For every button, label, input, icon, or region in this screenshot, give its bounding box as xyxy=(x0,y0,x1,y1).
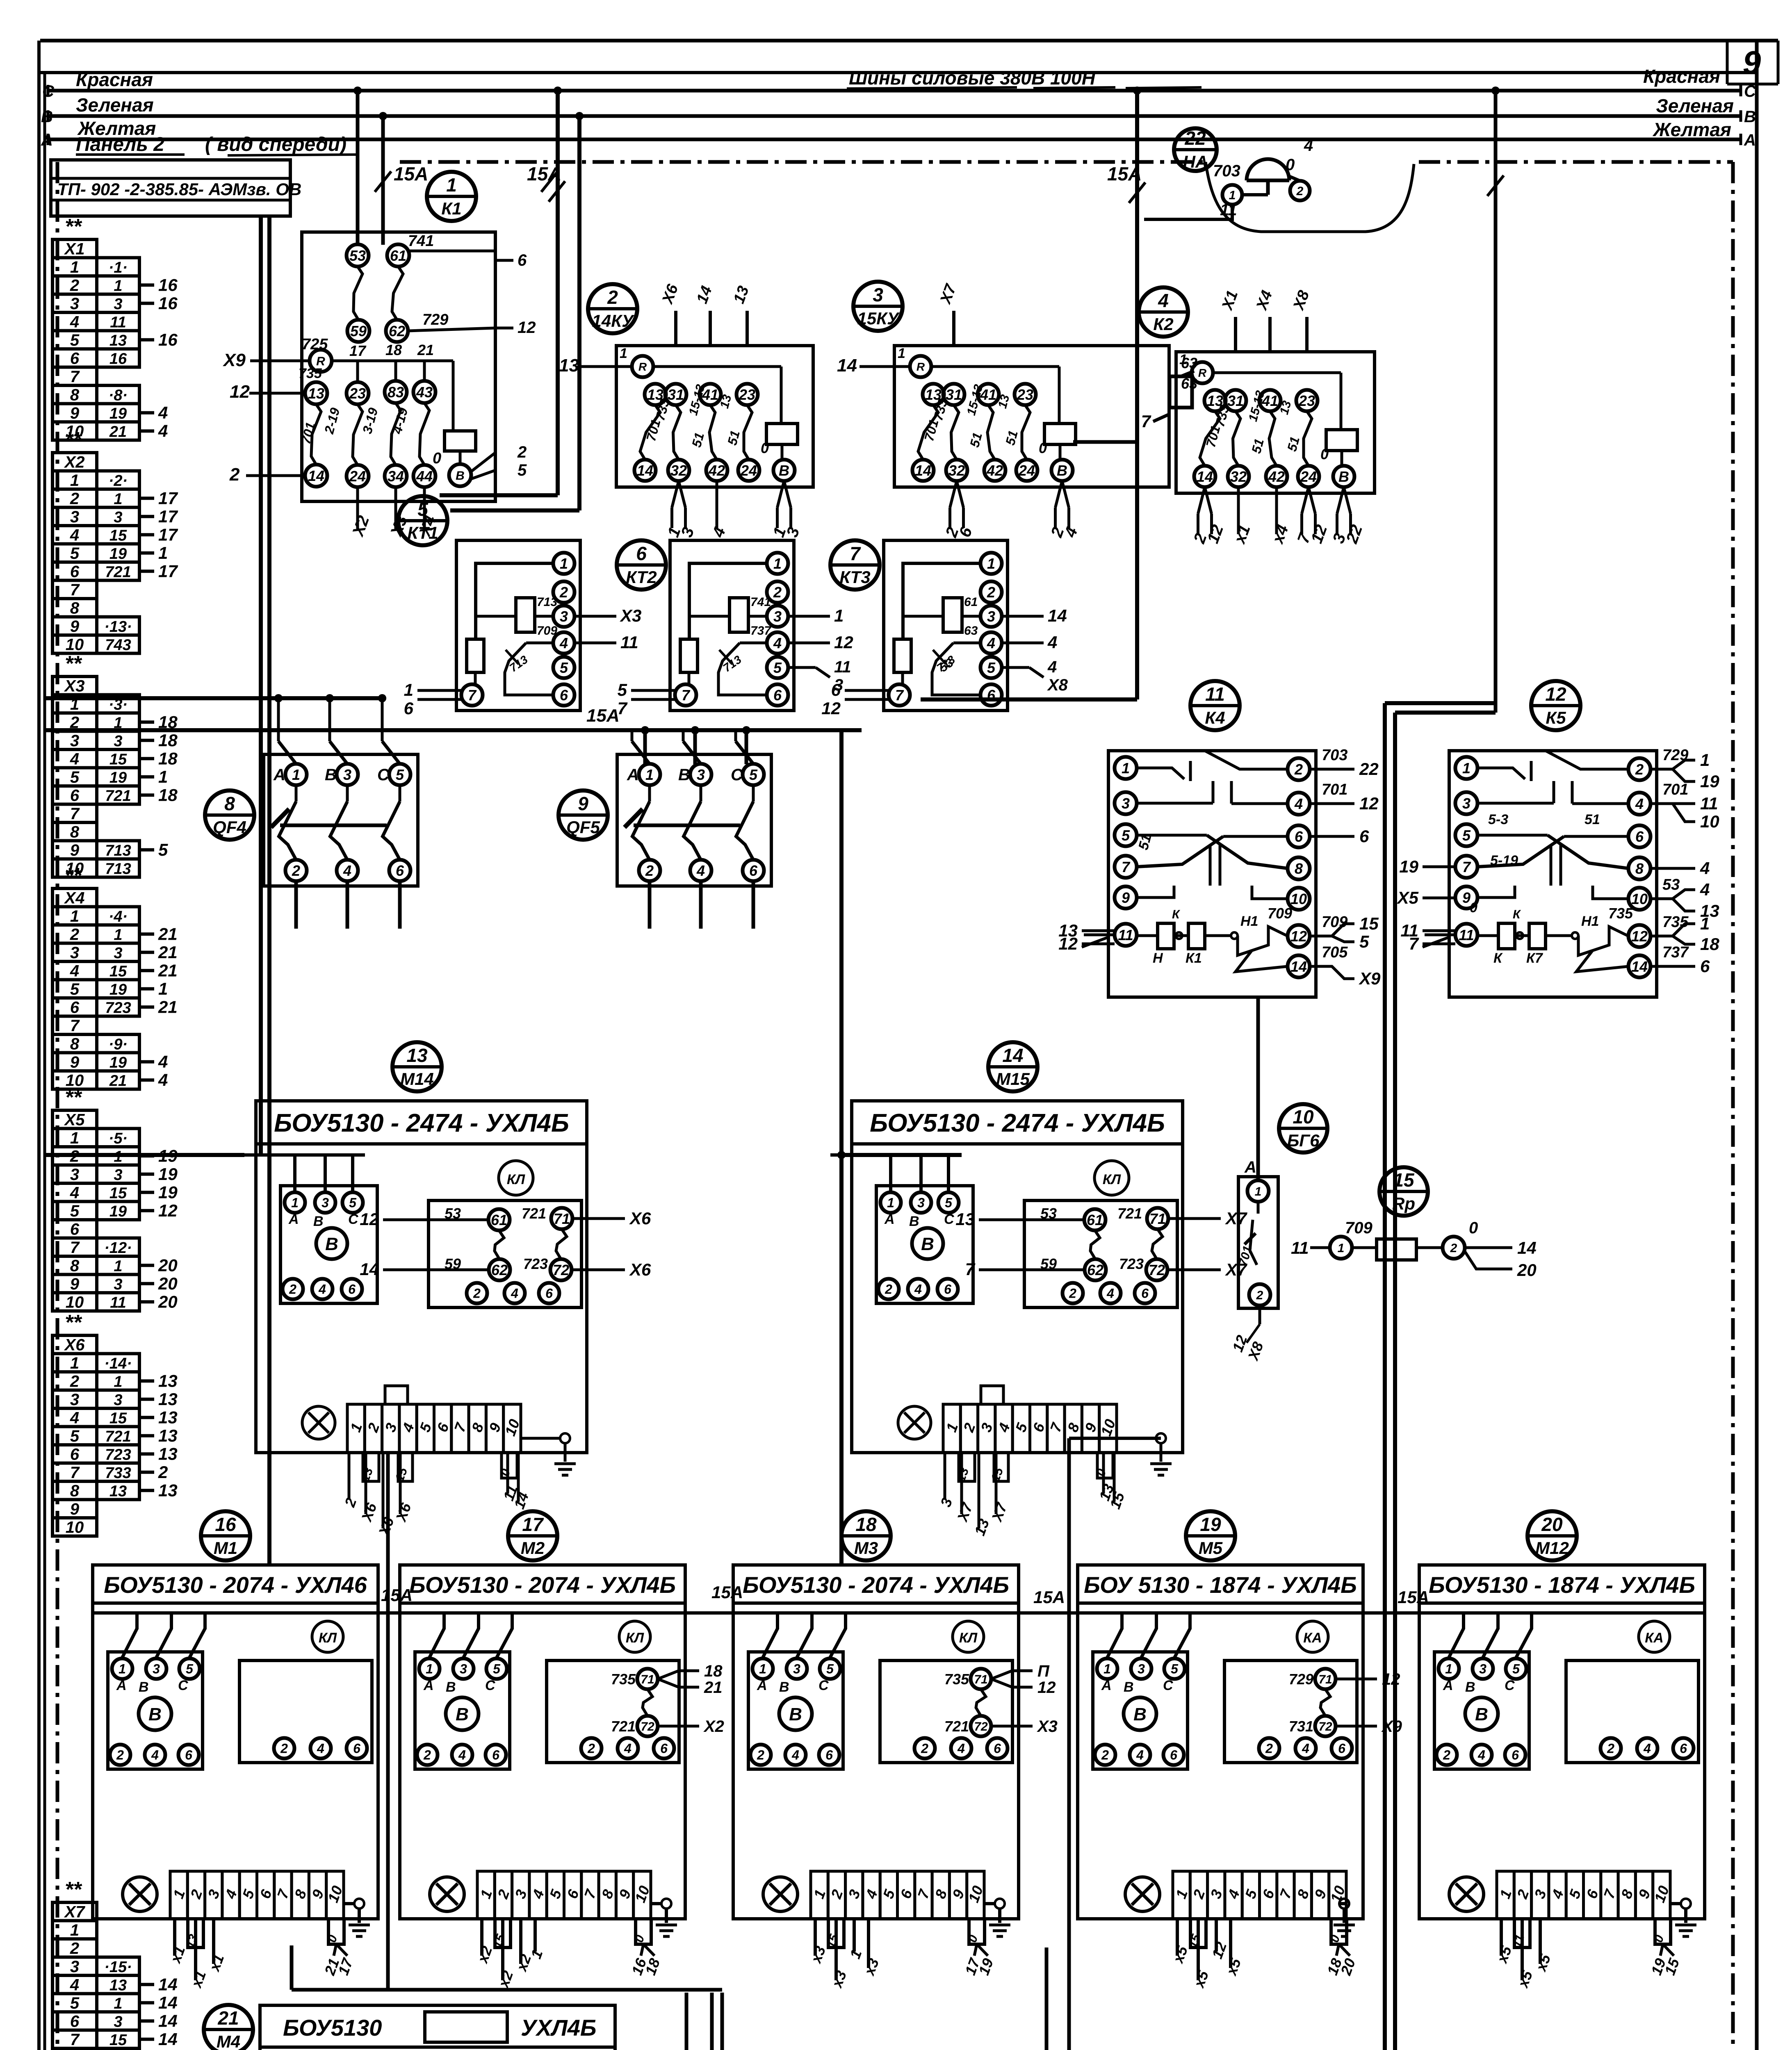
svg-text:11: 11 xyxy=(1205,683,1225,705)
svg-text:721: 721 xyxy=(522,1205,546,1222)
svg-text:11: 11 xyxy=(110,1294,126,1311)
svg-text:1: 1 xyxy=(114,490,122,508)
svg-text:4: 4 xyxy=(1047,658,1057,676)
svg-text:12: 12 xyxy=(834,633,853,652)
svg-text:4: 4 xyxy=(1136,1748,1144,1763)
svg-text:61: 61 xyxy=(1087,1212,1103,1228)
svg-text:709: 709 xyxy=(1322,913,1347,931)
svg-text:21: 21 xyxy=(158,961,178,980)
svg-text:4: 4 xyxy=(773,635,782,651)
svg-text:2: 2 xyxy=(70,925,79,943)
svg-text:12: 12 xyxy=(1058,934,1078,953)
svg-text:5: 5 xyxy=(618,680,627,699)
svg-text:9: 9 xyxy=(70,1500,80,1518)
svg-text:721: 721 xyxy=(105,787,131,804)
svg-text:3: 3 xyxy=(114,733,122,750)
svg-text:1: 1 xyxy=(1229,189,1236,202)
svg-text:A: A xyxy=(41,131,53,149)
svg-text:4: 4 xyxy=(1700,880,1710,899)
svg-text:КТ3: КТ3 xyxy=(839,567,870,587)
svg-text:C: C xyxy=(42,82,55,100)
svg-text:9: 9 xyxy=(1462,889,1471,906)
svg-text:4: 4 xyxy=(559,635,568,651)
svg-text:М3: М3 xyxy=(854,1538,878,1558)
svg-text:24: 24 xyxy=(349,468,366,485)
svg-text:4: 4 xyxy=(957,1741,965,1756)
svg-text:16: 16 xyxy=(109,350,127,367)
svg-text:1: 1 xyxy=(834,606,844,625)
svg-text:6: 6 xyxy=(660,1741,668,1756)
svg-text:13: 13 xyxy=(955,1209,975,1229)
svg-text:С: С xyxy=(178,1678,188,1693)
svg-text:X4: X4 xyxy=(64,889,85,907)
svg-text:3: 3 xyxy=(114,1276,122,1293)
svg-text:7: 7 xyxy=(1122,859,1131,875)
svg-text:709: 709 xyxy=(1345,1219,1372,1237)
svg-text:1: 1 xyxy=(773,555,782,572)
svg-text:КТ1: КТ1 xyxy=(407,523,438,542)
svg-text:2: 2 xyxy=(921,1741,928,1756)
svg-text:735: 735 xyxy=(611,1671,636,1688)
svg-text:3: 3 xyxy=(70,295,79,313)
svg-text:6: 6 xyxy=(70,1220,80,1238)
svg-text:C: C xyxy=(1744,82,1756,100)
svg-text:21: 21 xyxy=(158,943,178,962)
svg-text:4: 4 xyxy=(1304,137,1313,155)
svg-text:2: 2 xyxy=(280,1741,288,1756)
svg-text:В: В xyxy=(139,1679,149,1695)
svg-text:21: 21 xyxy=(109,423,127,440)
svg-text:1: 1 xyxy=(887,1196,894,1210)
svg-text:9: 9 xyxy=(70,1275,80,1293)
svg-text:В: В xyxy=(1475,1704,1488,1724)
svg-text:3: 3 xyxy=(114,2013,122,2030)
svg-text:5: 5 xyxy=(186,1662,194,1676)
svg-text:3: 3 xyxy=(773,608,782,625)
svg-text:14: 14 xyxy=(158,2048,178,2050)
svg-text:**: ** xyxy=(65,428,82,452)
svg-text:8: 8 xyxy=(1635,860,1644,877)
svg-text:14: 14 xyxy=(1197,468,1213,485)
svg-text:6: 6 xyxy=(1635,828,1644,845)
svg-text:К: К xyxy=(1172,908,1181,921)
svg-text:5: 5 xyxy=(158,840,168,859)
svg-text:9: 9 xyxy=(1122,889,1130,906)
svg-text:БОУ5130 - 2074 - УХЛ4Б: БОУ5130 - 2074 - УХЛ4Б xyxy=(409,1572,676,1598)
svg-text:5: 5 xyxy=(70,768,80,786)
svg-text:5: 5 xyxy=(773,659,782,676)
svg-text:13: 13 xyxy=(308,385,324,402)
svg-text:22: 22 xyxy=(1359,759,1379,779)
svg-text:10: 10 xyxy=(1290,891,1307,907)
svg-text:3: 3 xyxy=(114,1392,122,1409)
svg-text:735: 735 xyxy=(1662,913,1689,931)
svg-text:6: 6 xyxy=(987,687,996,704)
svg-text:14: 14 xyxy=(158,2029,178,2049)
svg-text:8: 8 xyxy=(224,793,235,814)
svg-text:B: B xyxy=(1744,108,1756,126)
svg-text:14: 14 xyxy=(1002,1045,1023,1066)
svg-text:0: 0 xyxy=(1469,1219,1478,1237)
svg-text:В: В xyxy=(1465,1679,1475,1695)
svg-text:12: 12 xyxy=(1631,928,1648,945)
svg-text:6: 6 xyxy=(825,1748,833,1763)
svg-text:1: 1 xyxy=(1122,760,1130,777)
svg-text:723: 723 xyxy=(523,1255,548,1272)
svg-text:71: 71 xyxy=(1149,1210,1166,1227)
svg-text:A: A xyxy=(1744,131,1756,149)
svg-text:4: 4 xyxy=(1047,633,1057,652)
svg-text:2: 2 xyxy=(773,584,782,601)
svg-text:4: 4 xyxy=(696,862,705,879)
svg-text:5: 5 xyxy=(560,659,568,676)
svg-text:18: 18 xyxy=(158,785,178,804)
svg-text:X7: X7 xyxy=(64,1903,86,1921)
svg-text:6: 6 xyxy=(70,786,80,804)
svg-text:6: 6 xyxy=(185,1748,192,1763)
svg-text:5-19: 5-19 xyxy=(1490,853,1518,868)
svg-text:71: 71 xyxy=(641,1673,654,1686)
svg-text:В: В xyxy=(909,1214,919,1229)
svg-text:1: 1 xyxy=(158,979,168,998)
svg-text:5: 5 xyxy=(70,1427,80,1445)
svg-text:В: В xyxy=(456,1704,469,1724)
svg-text:2: 2 xyxy=(70,1939,79,1957)
svg-text:Х6: Х6 xyxy=(629,1260,651,1279)
svg-text:**: ** xyxy=(65,1311,82,1335)
svg-text:К: К xyxy=(1493,950,1503,966)
svg-text:13: 13 xyxy=(109,332,127,349)
svg-text:53: 53 xyxy=(349,247,366,264)
svg-text:23: 23 xyxy=(1017,386,1033,403)
svg-text:16: 16 xyxy=(158,275,178,294)
svg-text:2: 2 xyxy=(1101,1748,1109,1763)
svg-text:71: 71 xyxy=(1318,1673,1332,1686)
svg-text:12: 12 xyxy=(1382,1670,1400,1688)
svg-text:701: 701 xyxy=(1662,781,1688,798)
svg-text:42: 42 xyxy=(1268,468,1285,485)
svg-text:3: 3 xyxy=(70,508,79,526)
svg-text:Н1: Н1 xyxy=(1581,913,1599,929)
svg-text:Н: Н xyxy=(1153,950,1163,966)
svg-text:0: 0 xyxy=(1320,446,1329,462)
svg-text:62: 62 xyxy=(389,323,405,339)
svg-text:729: 729 xyxy=(422,311,448,328)
svg-text:18: 18 xyxy=(158,731,178,750)
svg-text:2: 2 xyxy=(70,1372,79,1390)
svg-text:13: 13 xyxy=(109,1483,127,1500)
svg-text:14: 14 xyxy=(637,462,653,479)
svg-text:3: 3 xyxy=(343,766,351,783)
svg-text:3: 3 xyxy=(70,1391,79,1409)
svg-text:21: 21 xyxy=(109,1072,127,1089)
svg-text:·13·: ·13· xyxy=(104,618,132,635)
svg-text:·15·: ·15· xyxy=(104,1959,132,1976)
svg-text:7: 7 xyxy=(70,368,80,386)
svg-text:В: В xyxy=(313,1214,324,1229)
svg-text:11: 11 xyxy=(1220,201,1237,219)
svg-text:72: 72 xyxy=(974,1720,988,1733)
svg-text:6: 6 xyxy=(545,1286,553,1301)
svg-text:Х6: Х6 xyxy=(629,1209,651,1228)
svg-text:7: 7 xyxy=(70,805,80,823)
svg-text:19: 19 xyxy=(109,545,127,563)
svg-text:6: 6 xyxy=(492,1748,499,1763)
svg-text:В: В xyxy=(789,1704,802,1724)
svg-text:7: 7 xyxy=(468,687,477,704)
svg-text:3: 3 xyxy=(1138,1662,1145,1676)
svg-text:2: 2 xyxy=(1256,1289,1263,1302)
svg-text:3: 3 xyxy=(873,284,883,305)
svg-text:701: 701 xyxy=(1322,781,1347,798)
svg-text:4: 4 xyxy=(70,1976,79,1994)
svg-text:19: 19 xyxy=(109,769,127,786)
svg-text:4: 4 xyxy=(151,1748,159,1763)
svg-text:2: 2 xyxy=(1607,1741,1614,1756)
svg-text:8: 8 xyxy=(70,1035,80,1053)
svg-text:ТП- 902 -2-385.85- АЭМзв. ОВ: ТП- 902 -2-385.85- АЭМзв. ОВ xyxy=(57,180,301,199)
svg-text:18: 18 xyxy=(158,749,178,768)
svg-text:В: В xyxy=(1124,1679,1134,1695)
svg-text:2: 2 xyxy=(70,490,79,508)
svg-text:6: 6 xyxy=(70,1445,80,1463)
svg-text:3: 3 xyxy=(114,296,122,313)
svg-text:X2: X2 xyxy=(64,453,85,471)
svg-text:2: 2 xyxy=(423,1748,431,1763)
svg-text:19: 19 xyxy=(109,981,127,998)
svg-text:15А: 15А xyxy=(1033,1588,1065,1607)
svg-text:13: 13 xyxy=(158,1371,178,1390)
svg-text:19: 19 xyxy=(1200,1514,1221,1535)
svg-text:19: 19 xyxy=(158,1182,178,1202)
svg-text:5: 5 xyxy=(987,659,996,676)
svg-text:34: 34 xyxy=(388,468,404,485)
svg-text:5: 5 xyxy=(70,544,80,563)
svg-text:БОУ5130: БОУ5130 xyxy=(283,2015,382,2041)
svg-text:22: 22 xyxy=(1184,128,1206,149)
svg-text:1: 1 xyxy=(114,1257,122,1275)
svg-text:1: 1 xyxy=(292,766,300,783)
svg-text:4: 4 xyxy=(70,1184,79,1202)
svg-text:5: 5 xyxy=(396,766,404,783)
svg-text:2: 2 xyxy=(289,1282,296,1297)
svg-text:Х7: Х7 xyxy=(1225,1209,1247,1228)
svg-text:5: 5 xyxy=(349,1196,357,1210)
svg-text:2: 2 xyxy=(885,1282,892,1297)
svg-text:13: 13 xyxy=(158,1481,178,1500)
svg-text:5: 5 xyxy=(749,766,758,783)
svg-text:12: 12 xyxy=(821,699,841,718)
svg-text:4: 4 xyxy=(1643,1741,1651,1756)
svg-text:731: 731 xyxy=(1289,1718,1313,1735)
svg-text:КЛ: КЛ xyxy=(507,1172,525,1187)
svg-text:Rp: Rp xyxy=(1392,1194,1415,1213)
svg-text:5: 5 xyxy=(70,331,80,349)
svg-text:2: 2 xyxy=(987,584,995,601)
svg-text:72: 72 xyxy=(1149,1262,1165,1278)
svg-text:1: 1 xyxy=(158,543,168,563)
svg-text:В: В xyxy=(1057,462,1067,479)
svg-text:6: 6 xyxy=(404,699,414,718)
svg-text:20: 20 xyxy=(158,1292,178,1311)
svg-text:7: 7 xyxy=(70,2031,80,2049)
svg-text:2: 2 xyxy=(1296,184,1304,198)
svg-text:КЛ: КЛ xyxy=(959,1630,978,1646)
svg-text:23: 23 xyxy=(739,386,755,403)
svg-text:1: 1 xyxy=(560,555,568,572)
svg-text:20: 20 xyxy=(158,1274,178,1293)
svg-text:К4: К4 xyxy=(1205,708,1225,727)
svg-text:Х3: Х3 xyxy=(620,606,641,625)
svg-text:11: 11 xyxy=(834,658,851,676)
svg-text:12: 12 xyxy=(360,1209,379,1229)
svg-text:735: 735 xyxy=(944,1671,969,1688)
svg-text:24: 24 xyxy=(1300,468,1317,485)
svg-text:3: 3 xyxy=(153,1662,160,1676)
svg-text:7: 7 xyxy=(70,1464,80,1482)
svg-text:4: 4 xyxy=(987,635,995,651)
svg-text:1: 1 xyxy=(114,1995,122,2012)
svg-text:КА: КА xyxy=(1645,1630,1663,1646)
svg-text:72: 72 xyxy=(641,1720,654,1733)
svg-text:10: 10 xyxy=(66,1518,84,1536)
svg-text:QF5: QF5 xyxy=(566,818,600,837)
svg-text:14: 14 xyxy=(1631,958,1648,975)
svg-text:5: 5 xyxy=(70,1202,80,1220)
svg-text:Н1: Н1 xyxy=(1240,913,1258,929)
svg-text:·4·: ·4· xyxy=(109,908,128,925)
svg-text:3: 3 xyxy=(114,945,122,962)
svg-text:1: 1 xyxy=(446,174,457,196)
svg-text:1: 1 xyxy=(291,1196,299,1210)
svg-text:13: 13 xyxy=(406,1045,428,1066)
svg-text:2: 2 xyxy=(116,1748,124,1763)
svg-text:А: А xyxy=(757,1678,767,1693)
svg-text:П: П xyxy=(1037,1662,1050,1680)
svg-text:44: 44 xyxy=(416,468,433,485)
svg-text:6: 6 xyxy=(1141,1286,1149,1301)
svg-text:11: 11 xyxy=(1291,1238,1309,1257)
svg-text:63: 63 xyxy=(964,624,978,638)
svg-text:61: 61 xyxy=(390,247,406,264)
svg-text:R: R xyxy=(638,360,647,373)
svg-text:11: 11 xyxy=(1459,927,1474,943)
svg-text:9: 9 xyxy=(70,617,80,635)
svg-text:4: 4 xyxy=(1700,859,1710,878)
svg-text:6: 6 xyxy=(70,2012,80,2030)
svg-text:11: 11 xyxy=(1118,927,1133,943)
svg-text:К2: К2 xyxy=(1153,314,1173,334)
svg-text:В: В xyxy=(678,766,690,784)
svg-text:А: А xyxy=(1244,1158,1256,1176)
svg-text:7: 7 xyxy=(70,581,80,599)
svg-text:QF4: QF4 xyxy=(213,818,246,837)
svg-text:2: 2 xyxy=(292,862,300,879)
svg-text:М2: М2 xyxy=(521,1538,545,1558)
svg-text:713: 713 xyxy=(537,595,557,609)
svg-text:7: 7 xyxy=(1462,859,1471,875)
svg-text:КЛ: КЛ xyxy=(319,1630,337,1646)
svg-text:705: 705 xyxy=(1322,944,1348,961)
svg-text:6: 6 xyxy=(1359,827,1369,846)
svg-text:2: 2 xyxy=(1294,761,1303,778)
svg-text:2: 2 xyxy=(158,1462,168,1482)
svg-text:6: 6 xyxy=(1170,1748,1177,1763)
svg-text:4: 4 xyxy=(1106,1286,1114,1301)
svg-text:13: 13 xyxy=(158,1389,178,1409)
svg-text:13: 13 xyxy=(158,1444,178,1463)
svg-text:61: 61 xyxy=(964,595,978,609)
svg-text:Х9: Х9 xyxy=(1381,1717,1402,1736)
svg-text:23: 23 xyxy=(1298,392,1315,409)
svg-text:3: 3 xyxy=(70,1166,79,1184)
svg-text:19: 19 xyxy=(1399,857,1418,876)
svg-text:В: В xyxy=(325,1234,338,1254)
svg-text:4: 4 xyxy=(1477,1748,1485,1763)
svg-text:18: 18 xyxy=(385,342,402,358)
svg-text:БОУ5130 - 2474 - УХЛ4Б: БОУ5130 - 2474 - УХЛ4Б xyxy=(274,1109,569,1137)
svg-text:Х9: Х9 xyxy=(1359,969,1381,988)
svg-text:5: 5 xyxy=(1359,932,1369,951)
svg-text:БОУ 5130 - 1874 - УХЛ4Б: БОУ 5130 - 1874 - УХЛ4Б xyxy=(1084,1572,1357,1598)
svg-text:С: С xyxy=(1505,1678,1515,1693)
svg-text:Х7: Х7 xyxy=(1225,1260,1247,1279)
svg-text:1: 1 xyxy=(1338,1241,1345,1255)
svg-text:6: 6 xyxy=(831,680,841,699)
svg-text:709: 709 xyxy=(1268,905,1292,922)
svg-text:62: 62 xyxy=(491,1262,508,1278)
svg-text:19: 19 xyxy=(109,1203,127,1220)
svg-text:7: 7 xyxy=(682,687,691,704)
svg-text:741: 741 xyxy=(408,232,434,250)
svg-text:4: 4 xyxy=(511,1286,518,1301)
svg-text:17: 17 xyxy=(158,561,178,581)
svg-text:1: 1 xyxy=(898,346,905,361)
svg-text:5: 5 xyxy=(1171,1662,1179,1676)
svg-text:32: 32 xyxy=(670,462,687,479)
svg-text:3: 3 xyxy=(987,608,995,625)
svg-text:4: 4 xyxy=(70,526,79,544)
svg-text:14: 14 xyxy=(158,1993,178,2012)
svg-text:4: 4 xyxy=(70,962,79,980)
svg-text:6: 6 xyxy=(994,1741,1001,1756)
svg-text:К1: К1 xyxy=(1186,950,1202,966)
svg-text:1: 1 xyxy=(70,907,79,925)
svg-text:1: 1 xyxy=(645,766,654,783)
svg-text:А: А xyxy=(1101,1678,1112,1693)
svg-text:БОУ5130 - 2074 - УХЛ4Б: БОУ5130 - 2074 - УХЛ4Б xyxy=(743,1572,1009,1598)
svg-text:Х8: Х8 xyxy=(1047,676,1068,694)
svg-text:15А: 15А xyxy=(586,706,620,726)
svg-text:737: 737 xyxy=(1662,944,1689,961)
svg-text:В: В xyxy=(446,1679,456,1695)
svg-text:12: 12 xyxy=(518,319,536,337)
svg-text:4: 4 xyxy=(458,1748,466,1763)
svg-text:14: 14 xyxy=(360,1260,379,1279)
svg-text:6: 6 xyxy=(1512,1748,1519,1763)
svg-text:15: 15 xyxy=(109,527,127,544)
svg-text:5: 5 xyxy=(70,1994,80,2012)
svg-text:18: 18 xyxy=(1700,934,1719,954)
svg-text:М14: М14 xyxy=(400,1069,434,1089)
svg-text:721: 721 xyxy=(105,1428,131,1445)
svg-text:4: 4 xyxy=(1294,795,1303,812)
svg-text:4: 4 xyxy=(158,403,168,422)
svg-text:6: 6 xyxy=(560,687,568,704)
svg-text:4: 4 xyxy=(70,1409,79,1427)
svg-text:4: 4 xyxy=(1158,290,1169,311)
svg-text:741: 741 xyxy=(750,595,771,609)
